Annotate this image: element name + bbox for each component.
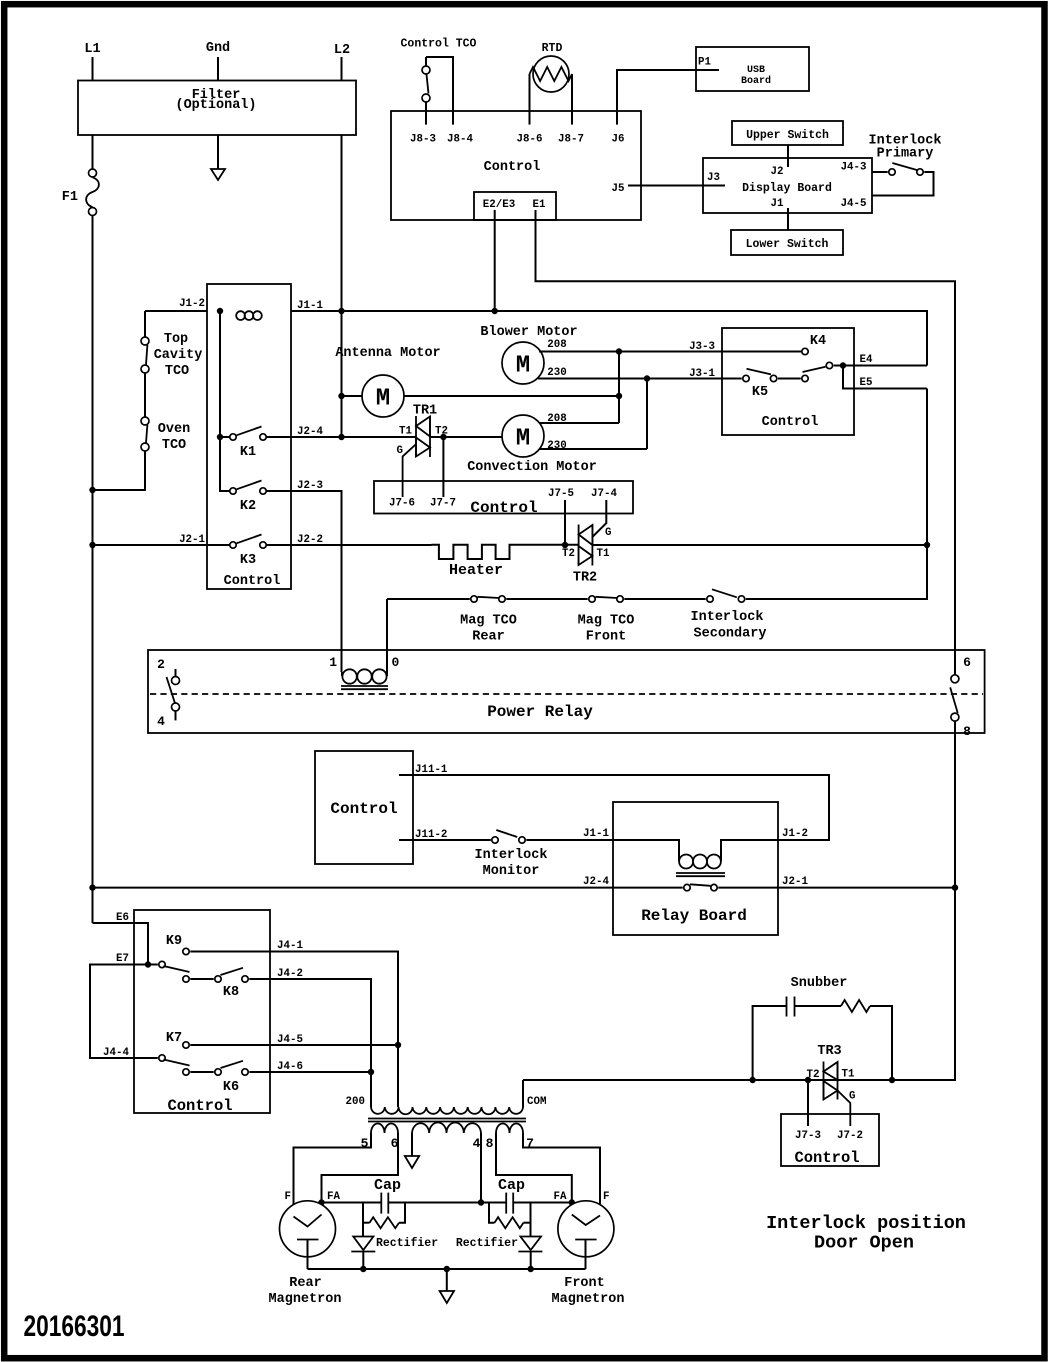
svg-text:J8-4: J8-4 [447, 134, 473, 146]
svg-text:FA: FA [554, 1191, 567, 1203]
svg-text:RTD: RTD [542, 42, 563, 55]
control box K6-K9 [134, 910, 270, 1115]
svg-text:208: 208 [547, 339, 566, 351]
wire J2 [787, 145, 789, 167]
svg-text:M: M [516, 426, 530, 453]
svg-text:M: M [376, 386, 390, 413]
transformer secondary filament rear (5-6) [361, 1124, 399, 1152]
svg-text:K7: K7 [166, 1031, 182, 1046]
mag TCO front [506, 596, 634, 645]
ground bottom [440, 1269, 454, 1303]
svg-text:J8-7: J8-7 [558, 134, 584, 146]
junction dot coil/vertical [217, 308, 223, 314]
svg-text:7: 7 [526, 1136, 534, 1151]
triac TR2 [562, 525, 611, 586]
wire J2-3 to power relay coil 1 [266, 491, 341, 672]
svg-text:J4-5: J4-5 [277, 1034, 303, 1046]
svg-text:230: 230 [547, 440, 566, 452]
svg-text:Heater: Heater [449, 562, 503, 579]
wire convection 230 [539, 448, 647, 450]
svg-text:200: 200 [346, 1096, 365, 1108]
junction dot antenna/208 rail [616, 393, 622, 399]
svg-text:J3-1: J3-1 [689, 368, 715, 380]
capacitor Cap front [498, 1177, 525, 1214]
svg-text:L1: L1 [84, 42, 100, 57]
svg-text:Cap: Cap [374, 1177, 401, 1194]
svg-text:J2: J2 [771, 166, 784, 178]
junction dot TCO/left rail [89, 487, 95, 493]
svg-text:Rectifier: Rectifier [456, 1237, 518, 1250]
svg-text:K9: K9 [166, 934, 182, 949]
switch K9 [166, 934, 189, 955]
RTD [530, 42, 573, 125]
wire K5 common to E4/E5 [834, 365, 927, 367]
wire K-box internal vertical [220, 311, 230, 491]
svg-text:4: 4 [157, 714, 165, 729]
svg-text:Primary: Primary [877, 147, 934, 162]
control interface box J7 [374, 481, 633, 517]
relay coil in K box [236, 311, 245, 320]
wire L1 stub [92, 57, 94, 81]
svg-text:J4-6: J4-6 [277, 1061, 303, 1073]
transformer core [368, 1119, 526, 1122]
junction dot snubber right [889, 1077, 895, 1083]
svg-text:J7-7: J7-7 [430, 498, 456, 510]
svg-text:J7-2: J7-2 [837, 1130, 863, 1142]
svg-text:T1: T1 [399, 426, 412, 438]
svg-text:J8-6: J8-6 [517, 134, 543, 146]
junction dot TR3 T2 [805, 1077, 811, 1083]
svg-text:J3-3: J3-3 [689, 341, 715, 353]
wire J4-5 [190, 1044, 398, 1046]
junction dot antenna motor [338, 393, 344, 399]
wire L2 vertical to J1-1 [341, 135, 343, 311]
junction dot E6/E7 [145, 961, 151, 967]
E2/E3 E1 sub-box [474, 192, 556, 220]
svg-text:J4-1: J4-1 [277, 940, 303, 952]
svg-text:Upper Switch: Upper Switch [746, 129, 829, 142]
snubber [753, 976, 892, 1080]
svg-text:Rectifier: Rectifier [376, 1237, 438, 1250]
switch K3 [230, 535, 266, 569]
svg-text:Board: Board [741, 75, 771, 87]
mag TCO rear [387, 596, 517, 645]
svg-text:J3: J3 [707, 172, 720, 184]
wire E6 [93, 923, 149, 965]
wire terminal 4 to HV rail [480, 1133, 482, 1203]
svg-text:Rear: Rear [289, 1276, 321, 1291]
junction dot 230 [644, 375, 650, 381]
relay board coil [613, 840, 778, 876]
svg-text:J5: J5 [612, 183, 625, 195]
junction dot snubber left [749, 1077, 755, 1083]
svg-text:1: 1 [329, 655, 337, 670]
wire antenna branch vertical [341, 311, 343, 437]
wire front cap to FA [513, 1202, 572, 1204]
wire J11-1 to relay board J1-2 [399, 775, 829, 840]
switch K8 [159, 961, 248, 1000]
svg-text:8: 8 [963, 724, 971, 739]
svg-text:E2/E3: E2/E3 [483, 199, 515, 211]
svg-text:T2: T2 [562, 548, 575, 560]
junction dot 208 [616, 348, 622, 354]
svg-text:TCO: TCO [165, 364, 189, 379]
capacitor Cap rear [374, 1177, 401, 1214]
power relay box [148, 650, 985, 733]
svg-text:TR2: TR2 [573, 571, 597, 586]
wire TR1 T2 to convection [430, 436, 502, 438]
svg-text:Blower Motor: Blower Motor [480, 325, 577, 340]
junction dot left rail / J2-4 [89, 884, 95, 890]
wire terminal 7 to front F [523, 1133, 600, 1216]
control box TR3 [781, 1114, 879, 1167]
svg-text:0: 0 [392, 655, 400, 670]
junction dot TR2 line / E5 rail [924, 542, 930, 548]
switch K5 [743, 362, 833, 400]
wire E5 rail vertical [746, 389, 927, 600]
blower motor [480, 325, 577, 384]
svg-text:E6: E6 [116, 912, 129, 924]
oven TCO [141, 373, 190, 453]
power relay contact 2/4 [157, 657, 179, 729]
svg-text:T1: T1 [597, 548, 610, 560]
switch interlock primary [889, 163, 923, 175]
wire J7-3 [807, 1080, 809, 1126]
lower switch box [731, 230, 843, 255]
wire J1-1 net horizontal [291, 311, 927, 366]
svg-text:20166301: 20166301 [24, 1310, 125, 1343]
wire J6 to USB board [617, 70, 719, 125]
svg-text:J1: J1 [771, 198, 784, 210]
svg-text:K3: K3 [240, 553, 256, 568]
svg-text:K2: K2 [240, 499, 256, 514]
wire J4-2 [249, 979, 371, 1107]
svg-text:Secondary: Secondary [694, 627, 767, 642]
svg-text:K5: K5 [752, 385, 768, 400]
wire terminal 8 to front FA [496, 1133, 572, 1215]
svg-text:TCO: TCO [162, 438, 186, 453]
wire 208 rail vertical [618, 352, 620, 424]
svg-text:5: 5 [361, 1136, 369, 1151]
junction dot front FA [569, 1199, 575, 1205]
switch K4 [802, 334, 826, 355]
svg-text:J2-1: J2-1 [782, 876, 808, 888]
resistor bleed rear [363, 1203, 405, 1237]
wire J2-1 to right rail [718, 887, 955, 889]
control TCO [401, 38, 477, 125]
control box J11 [315, 751, 413, 864]
rear magnetron [269, 1201, 342, 1307]
svg-text:230: 230 [547, 367, 566, 379]
heater [432, 545, 579, 579]
wire rear FA line [322, 1202, 382, 1204]
junction dot rear FA [318, 1199, 324, 1205]
svg-text:J2-4: J2-4 [583, 876, 609, 888]
svg-text:4: 4 [473, 1136, 481, 1151]
svg-text:J4-2: J4-2 [277, 968, 303, 980]
wire J4-3 to interlock primary [872, 171, 888, 173]
interlock secondary switch [624, 589, 766, 641]
svg-text:E5: E5 [860, 377, 873, 389]
svg-text:Top: Top [164, 332, 188, 347]
svg-text:J7-6: J7-6 [389, 498, 415, 510]
svg-text:L2: L2 [334, 43, 350, 58]
svg-text:Cap: Cap [498, 1177, 525, 1194]
junction dot front rectifier [528, 1266, 534, 1272]
USB board [696, 47, 809, 91]
svg-text:Snubber: Snubber [791, 976, 848, 991]
control board relay box K1-K3 [207, 284, 291, 589]
svg-text:Door Open: Door Open [814, 1233, 914, 1254]
front magnetron [552, 1201, 625, 1307]
transformer primary [346, 1096, 547, 1114]
wire TCO bottom to left rail [93, 451, 146, 490]
wire J2-4 K1 to TR1 [266, 436, 416, 438]
wire E7 / J4-4 loop [90, 965, 158, 1059]
wire blower 230 / J3-1 [538, 378, 742, 380]
wire cathode bottom bus [308, 1268, 586, 1270]
wire J4-1 [190, 952, 398, 1108]
junction dot J4-2/J4-6 [368, 1069, 374, 1075]
svg-text:T1: T1 [842, 1069, 855, 1081]
svg-text:Interlock: Interlock [475, 848, 548, 863]
svg-text:Relay Board: Relay Board [641, 907, 747, 925]
wire 230 rail vertical [646, 379, 648, 450]
resistor bleed front [489, 1203, 531, 1237]
svg-text:J4-4: J4-4 [103, 1047, 129, 1059]
power relay coil [329, 599, 399, 689]
wire J5 to J3 display board [628, 185, 725, 187]
svg-text:Monitor: Monitor [483, 864, 540, 879]
svg-text:Control: Control [794, 1149, 859, 1167]
wire TR2 T1 to E5 rail [592, 544, 927, 546]
svg-text:Front: Front [586, 630, 627, 645]
svg-text:M: M [516, 353, 530, 380]
wire J2-2 to heater [266, 544, 431, 546]
svg-text:Control: Control [470, 499, 537, 517]
wire J11-2 to interlock monitor [399, 839, 491, 841]
svg-text:Interlock position: Interlock position [766, 1213, 966, 1234]
junction dot center ground [444, 1266, 450, 1272]
triac TR1 [397, 404, 448, 498]
wire E1 to power relay 6 [536, 210, 956, 675]
svg-text:F: F [603, 1191, 609, 1203]
svg-text:Convection Motor: Convection Motor [467, 460, 597, 475]
wire J7-7 [442, 437, 444, 497]
svg-text:J1-2: J1-2 [782, 828, 808, 840]
switch interlock monitor [475, 830, 548, 879]
wire J4-6 [249, 1071, 371, 1073]
svg-text:Control: Control [330, 800, 397, 818]
svg-text:Cavity: Cavity [154, 348, 203, 363]
svg-text:2: 2 [157, 657, 165, 672]
svg-text:FA: FA [327, 1191, 340, 1203]
wire L2 stub [341, 57, 343, 81]
svg-text:J7-3: J7-3 [795, 1130, 821, 1142]
wire E5 drop [843, 366, 927, 389]
svg-text:8: 8 [486, 1136, 494, 1151]
svg-text:J8-3: J8-3 [410, 134, 436, 146]
svg-text:F1: F1 [62, 190, 78, 205]
svg-text:COM: COM [527, 1096, 546, 1108]
wire J7-4 to TR2 G [592, 500, 606, 537]
junction dot rear rectifier [360, 1266, 366, 1272]
svg-text:K8: K8 [223, 985, 239, 1000]
wire interlock primary to J4-5 [872, 172, 934, 196]
junction dot J2-1/left rail [89, 542, 95, 548]
antenna motor [335, 346, 619, 417]
svg-text:G: G [605, 527, 611, 539]
svg-text:K4: K4 [810, 334, 826, 349]
svg-text:K6: K6 [223, 1080, 239, 1095]
relay board box [613, 802, 778, 935]
switch K2 [230, 481, 266, 515]
wire E2/E3 to J1-1 net [494, 210, 496, 311]
svg-text:J6: J6 [612, 134, 625, 146]
svg-text:F: F [285, 1191, 291, 1203]
wire terminal 6 to rear FA [322, 1133, 399, 1215]
wire J1 [787, 208, 789, 230]
fuse F1 [62, 135, 99, 216]
svg-text:TR3: TR3 [817, 1044, 841, 1059]
svg-text:G: G [397, 445, 403, 457]
svg-text:Front: Front [564, 1276, 605, 1291]
svg-text:Power Relay: Power Relay [487, 703, 593, 721]
svg-text:J7-5: J7-5 [548, 488, 574, 500]
junction dot E2E3/J1-1 [492, 308, 498, 314]
svg-text:Mag TCO: Mag TCO [460, 614, 517, 629]
transformer secondary HV (4) [412, 1122, 481, 1151]
top cavity TCO [141, 311, 202, 379]
display board [703, 158, 872, 213]
svg-text:G: G [849, 1091, 855, 1103]
svg-text:Magnetron: Magnetron [269, 1292, 342, 1307]
rectifier front [456, 1237, 543, 1270]
svg-text:(Optional): (Optional) [175, 98, 256, 113]
wire K1 stub [220, 436, 230, 438]
wire left main vertical L1 rail [92, 216, 94, 923]
svg-text:Control: Control [167, 1097, 232, 1115]
convection motor [467, 415, 597, 475]
svg-text:Interlock: Interlock [691, 610, 764, 625]
switch K7 [166, 1031, 189, 1048]
junction dot L2/J1-1 [338, 308, 344, 314]
svg-text:Mag TCO: Mag TCO [578, 614, 635, 629]
wire terminal 5 to rear F [294, 1133, 372, 1217]
junction dot J2-1/right rail [952, 884, 958, 890]
svg-text:Antenna Motor: Antenna Motor [335, 346, 440, 361]
junction dot J4-1/J4-5 [395, 1042, 401, 1048]
svg-text:Lower Switch: Lower Switch [746, 238, 829, 251]
svg-text:J1-1: J1-1 [297, 300, 323, 312]
ground symbol under filter [211, 135, 225, 180]
junction dot K1 branch [217, 434, 223, 440]
junction dot HV/FA rail [478, 1199, 484, 1205]
svg-text:J4-5: J4-5 [841, 198, 867, 210]
wire J2-4 from left rail [93, 887, 683, 889]
svg-text:E1: E1 [533, 199, 546, 211]
power relay contact 6/8 [950, 655, 971, 739]
svg-text:J1-2: J1-2 [179, 298, 205, 310]
svg-text:6: 6 [963, 655, 971, 670]
wire FA rail between networks [481, 1202, 506, 1204]
junction dot TR1 T2 / J7-7 [440, 434, 446, 440]
junction dot antenna rail top [338, 434, 344, 440]
svg-text:J7-4: J7-4 [591, 488, 617, 500]
svg-text:P1: P1 [698, 57, 711, 69]
svg-text:Control TCO: Control TCO [401, 38, 477, 51]
upper switch box [732, 121, 843, 145]
junction dot TR2 T2 [562, 542, 568, 548]
control board U-top [391, 111, 641, 220]
svg-text:Magnetron: Magnetron [552, 1292, 625, 1307]
wire power relay 8 to COM rail [523, 721, 955, 1080]
svg-text:K1: K1 [240, 445, 256, 460]
svg-text:E7: E7 [116, 953, 129, 965]
wire blower 208 / J3-3 [539, 351, 801, 353]
wire Gnd stub [217, 57, 219, 81]
switch K1 [230, 427, 266, 461]
switch K6 [159, 1055, 248, 1095]
relay board contact [684, 884, 717, 891]
control box K4/K5 [722, 328, 854, 435]
svg-text:Control: Control [762, 415, 819, 430]
triac TR3 [807, 1044, 856, 1126]
junction dot E4/E5 [840, 362, 846, 368]
wire monitor to relay board J1-1 [526, 839, 613, 841]
svg-text:J1-1: J1-1 [583, 828, 609, 840]
svg-text:Display Board: Display Board [742, 182, 832, 195]
wire rear cap to HV dot [388, 1202, 481, 1204]
svg-text:Rear: Rear [472, 630, 504, 645]
svg-text:E4: E4 [860, 354, 873, 366]
wire convection 208 [539, 422, 619, 424]
svg-text:USB: USB [747, 65, 765, 76]
svg-text:Gnd: Gnd [206, 41, 230, 56]
svg-text:Oven: Oven [158, 422, 190, 437]
ground HV center tap [405, 1133, 419, 1168]
wire J7-5 to TR2 T2 [564, 500, 566, 545]
wire J1-2 to TCO chain [145, 310, 207, 312]
filter block (Optional) [78, 81, 356, 136]
svg-text:Control: Control [484, 160, 541, 175]
wire COM riser [522, 1080, 524, 1107]
svg-text:J4-3: J4-3 [841, 162, 867, 174]
rectifier rear [351, 1237, 438, 1270]
svg-text:Control: Control [224, 574, 281, 589]
wire J2-1 from left rail [93, 544, 230, 546]
transformer secondary filament front (8-7) [486, 1124, 534, 1152]
